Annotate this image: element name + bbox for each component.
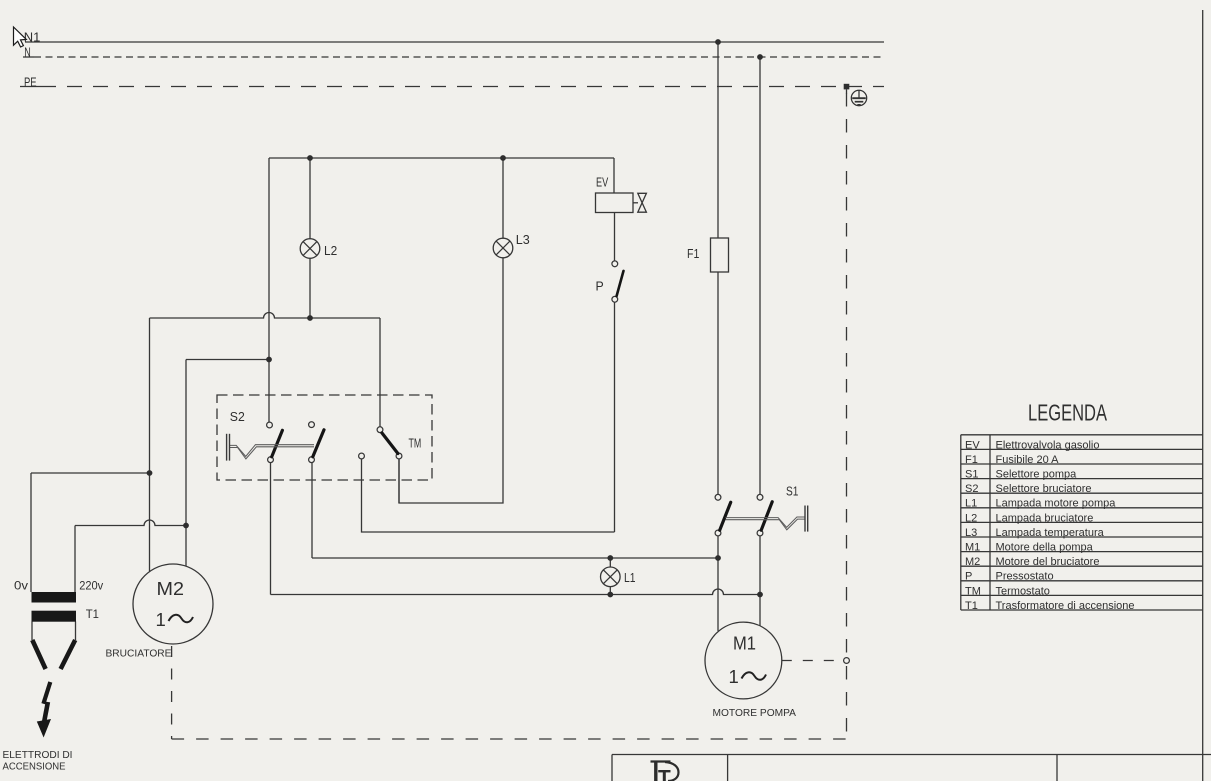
- svg-text:Pressostato: Pressostato: [996, 571, 1054, 583]
- svg-text:0v: 0v: [14, 581, 28, 593]
- svg-text:TM: TM: [965, 585, 981, 597]
- svg-text:PE: PE: [24, 75, 37, 90]
- svg-text:F1: F1: [687, 246, 699, 261]
- svg-text:Lampada motore pompa: Lampada motore pompa: [996, 498, 1117, 510]
- svg-text:L3: L3: [965, 527, 977, 539]
- svg-text:Lampada temperatura: Lampada temperatura: [996, 527, 1105, 539]
- svg-text:EV: EV: [596, 175, 608, 190]
- svg-text:S1: S1: [965, 469, 978, 481]
- svg-text:Selettore pompa: Selettore pompa: [996, 469, 1078, 481]
- svg-text:Lampada bruciatore: Lampada bruciatore: [996, 512, 1094, 524]
- svg-text:Selettore bruciatore: Selettore bruciatore: [996, 483, 1092, 495]
- svg-text:N: N: [24, 45, 31, 60]
- svg-text:T1: T1: [965, 600, 978, 612]
- svg-text:P: P: [596, 279, 604, 294]
- svg-text:1: 1: [729, 666, 739, 687]
- svg-text:Motore del bruciatore: Motore del bruciatore: [996, 556, 1100, 568]
- svg-text:TM: TM: [409, 435, 422, 450]
- svg-text:Termostato: Termostato: [996, 585, 1050, 597]
- svg-text:L2: L2: [965, 512, 977, 524]
- svg-text:ACCENSIONE: ACCENSIONE: [3, 761, 66, 773]
- svg-text:L1: L1: [965, 498, 977, 510]
- svg-text:Elettrovalvola gasolio: Elettrovalvola gasolio: [996, 439, 1100, 451]
- svg-text:F1: F1: [965, 454, 978, 466]
- svg-text:M1: M1: [733, 633, 756, 654]
- svg-text:S2: S2: [965, 483, 978, 495]
- svg-text:ELETTRODI DI: ELETTRODI DI: [3, 749, 73, 761]
- svg-text:L1: L1: [624, 570, 636, 585]
- svg-text:Motore della pompa: Motore della pompa: [996, 542, 1094, 554]
- svg-text:S2: S2: [230, 409, 245, 424]
- svg-text:1: 1: [156, 609, 166, 630]
- svg-text:M2: M2: [157, 578, 185, 599]
- svg-text:S1: S1: [786, 484, 798, 499]
- svg-text:Trasformatore di accensione: Trasformatore di accensione: [996, 600, 1135, 612]
- svg-text:MOTORE POMPA: MOTORE POMPA: [713, 707, 797, 719]
- svg-text:Fusibile 20 A: Fusibile 20 A: [996, 454, 1060, 466]
- svg-text:L2: L2: [324, 243, 337, 258]
- svg-text:M1: M1: [965, 542, 980, 554]
- svg-text:LEGENDA: LEGENDA: [1028, 400, 1107, 426]
- svg-text:M2: M2: [965, 556, 980, 568]
- svg-text:220v: 220v: [79, 581, 103, 593]
- svg-text:L3: L3: [516, 232, 530, 247]
- svg-text:P: P: [965, 571, 972, 583]
- svg-text:EV: EV: [965, 439, 980, 451]
- svg-text:N1: N1: [24, 30, 41, 45]
- svg-text:T1: T1: [86, 609, 99, 621]
- svg-text:BRUCIATORE: BRUCIATORE: [106, 648, 172, 660]
